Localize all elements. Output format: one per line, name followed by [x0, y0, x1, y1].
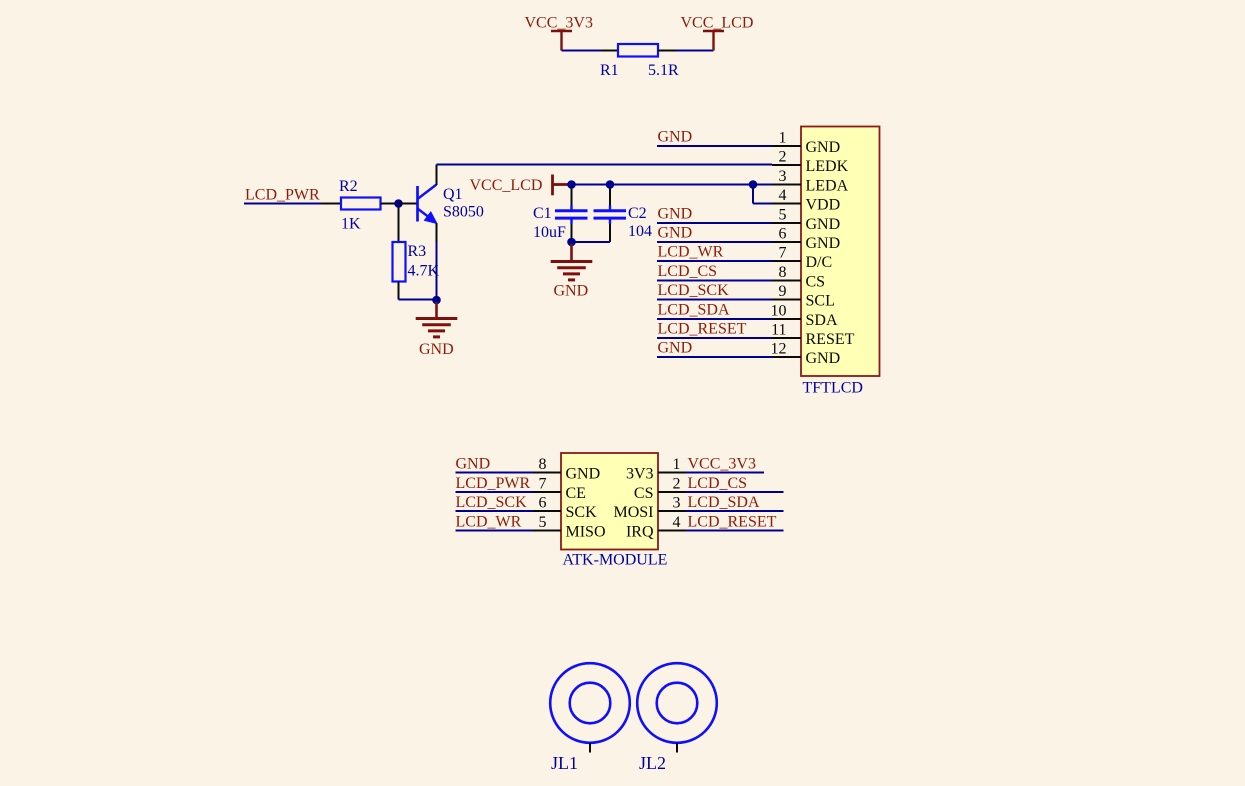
svg-text:7: 7 — [779, 245, 787, 262]
svg-text:R2: R2 — [339, 178, 358, 195]
svg-text:2: 2 — [779, 149, 787, 166]
svg-text:GND: GND — [806, 139, 841, 156]
svg-text:7: 7 — [539, 476, 547, 493]
svg-text:VCC_3V3: VCC_3V3 — [688, 456, 756, 473]
svg-text:LEDK: LEDK — [806, 158, 849, 175]
svg-text:CE: CE — [566, 485, 586, 502]
svg-text:1K: 1K — [341, 216, 361, 233]
svg-text:SCK: SCK — [566, 504, 598, 521]
svg-text:CS: CS — [806, 273, 826, 290]
svg-text:GND: GND — [554, 282, 589, 299]
svg-text:LCD_RESET: LCD_RESET — [688, 514, 777, 531]
svg-text:LCD_CS: LCD_CS — [658, 263, 718, 280]
svg-text:ATK-MODULE: ATK-MODULE — [563, 552, 668, 569]
svg-text:GND: GND — [658, 225, 693, 242]
svg-text:VCC_LCD: VCC_LCD — [681, 15, 754, 32]
svg-text:IRQ: IRQ — [626, 524, 654, 541]
svg-text:JL1: JL1 — [551, 753, 578, 773]
svg-text:GND: GND — [419, 341, 454, 358]
svg-text:4: 4 — [673, 514, 681, 531]
svg-text:GND: GND — [658, 340, 693, 357]
svg-text:D/C: D/C — [806, 254, 833, 271]
svg-text:SCL: SCL — [806, 292, 835, 309]
svg-text:3: 3 — [673, 495, 681, 512]
svg-text:GND: GND — [806, 350, 841, 367]
svg-text:5: 5 — [779, 207, 787, 224]
svg-text:LCD_RESET: LCD_RESET — [658, 321, 747, 338]
svg-text:6: 6 — [779, 226, 787, 243]
svg-text:5.1R: 5.1R — [648, 62, 679, 79]
svg-text:VCC_LCD: VCC_LCD — [470, 177, 543, 194]
svg-text:C1: C1 — [533, 205, 552, 222]
svg-text:RESET: RESET — [806, 331, 855, 348]
svg-text:GND: GND — [658, 129, 693, 146]
svg-text:4: 4 — [779, 187, 787, 204]
svg-text:MISO: MISO — [566, 524, 606, 541]
svg-text:104: 104 — [628, 223, 652, 240]
svg-text:GND: GND — [566, 466, 601, 483]
svg-text:LEDA: LEDA — [806, 177, 849, 194]
svg-text:12: 12 — [771, 341, 787, 358]
svg-text:8: 8 — [779, 264, 787, 281]
svg-text:5: 5 — [539, 514, 547, 531]
svg-text:9: 9 — [779, 283, 787, 300]
svg-text:R1: R1 — [600, 62, 619, 79]
svg-text:1: 1 — [779, 130, 787, 147]
svg-text:LCD_SDA: LCD_SDA — [688, 494, 760, 511]
svg-text:LCD_SCK: LCD_SCK — [456, 494, 528, 511]
svg-text:MOSI: MOSI — [613, 504, 653, 521]
svg-text:3: 3 — [779, 168, 787, 185]
svg-text:GND: GND — [806, 216, 841, 233]
svg-text:LCD_SDA: LCD_SDA — [658, 302, 730, 319]
svg-text:3V3: 3V3 — [626, 466, 654, 483]
svg-text:S8050: S8050 — [443, 204, 484, 221]
svg-text:TFTLCD: TFTLCD — [803, 380, 863, 397]
svg-text:CS: CS — [634, 485, 654, 502]
svg-text:10: 10 — [771, 303, 787, 320]
svg-text:VCC_3V3: VCC_3V3 — [525, 15, 593, 32]
svg-text:2: 2 — [673, 476, 681, 493]
svg-text:C2: C2 — [628, 205, 647, 222]
svg-text:4.7K: 4.7K — [408, 263, 440, 280]
svg-text:GND: GND — [456, 456, 491, 473]
svg-text:GND: GND — [806, 235, 841, 252]
svg-text:R3: R3 — [408, 243, 427, 260]
svg-text:11: 11 — [771, 322, 786, 339]
svg-text:LCD_WR: LCD_WR — [658, 244, 724, 261]
svg-text:6: 6 — [539, 495, 547, 512]
svg-text:LCD_CS: LCD_CS — [688, 475, 748, 492]
svg-text:LCD_SCK: LCD_SCK — [658, 282, 730, 299]
svg-text:VDD: VDD — [806, 196, 841, 213]
svg-text:SDA: SDA — [806, 312, 838, 329]
svg-text:LCD_PWR: LCD_PWR — [245, 187, 320, 204]
svg-text:LCD_PWR: LCD_PWR — [456, 475, 531, 492]
svg-text:10uF: 10uF — [533, 224, 566, 241]
svg-text:JL2: JL2 — [639, 753, 666, 773]
svg-text:Q1: Q1 — [443, 186, 463, 203]
svg-text:8: 8 — [539, 456, 547, 473]
svg-text:LCD_WR: LCD_WR — [456, 514, 522, 531]
svg-text:1: 1 — [673, 456, 681, 473]
svg-text:GND: GND — [658, 206, 693, 223]
